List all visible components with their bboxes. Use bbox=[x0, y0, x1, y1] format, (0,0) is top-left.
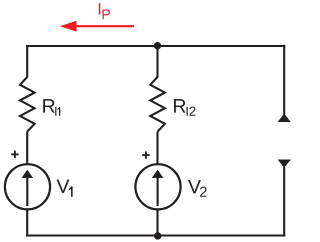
label V1 bbox=[57, 179, 73, 196]
label V2 bbox=[188, 180, 207, 197]
wire V1 to bottom bbox=[26, 209, 28, 237]
plus sign V1 bbox=[11, 151, 18, 158]
resistor RI2 bbox=[150, 77, 165, 132]
node bottom junction bbox=[154, 232, 161, 239]
wire right lower bbox=[283, 167, 285, 237]
voltage source V1 bbox=[5, 164, 50, 209]
plus sign V2 bbox=[142, 151, 149, 158]
label RI2 bbox=[174, 99, 195, 116]
label RI1 bbox=[43, 99, 60, 116]
port terminal upper bbox=[278, 114, 291, 123]
wire top bbox=[26, 45, 285, 47]
wire RI2 to V2 bbox=[156, 132, 158, 165]
wire bottom bbox=[26, 234, 285, 236]
wire right upper bbox=[283, 45, 285, 115]
voltage source V2 bbox=[135, 164, 180, 209]
wire left upper bbox=[26, 45, 28, 78]
wire mid upper bbox=[156, 45, 158, 78]
current arrow IP bbox=[60, 21, 134, 32]
resistor RI1 bbox=[20, 77, 35, 132]
wire RI1 to V1 bbox=[26, 132, 28, 165]
label IP bbox=[99, 3, 110, 19]
wire V2 to bottom bbox=[156, 209, 158, 237]
node top junction bbox=[154, 42, 161, 49]
port terminal lower bbox=[278, 160, 291, 168]
